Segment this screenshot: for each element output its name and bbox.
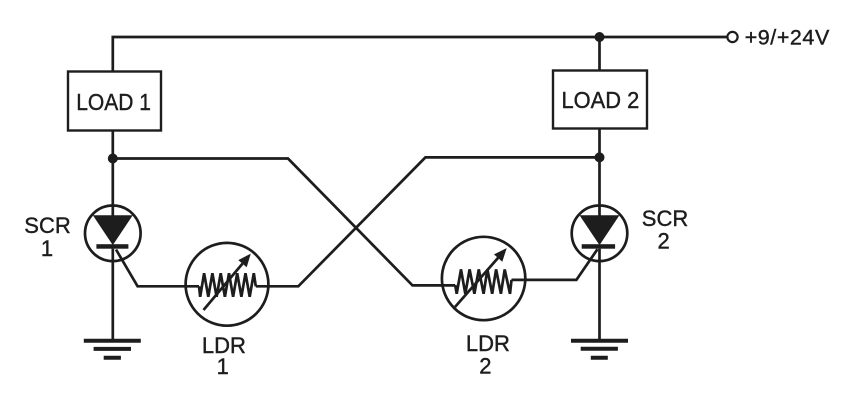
svg-text:SCR: SCR bbox=[24, 213, 70, 238]
svg-text:2: 2 bbox=[479, 353, 491, 378]
svg-text:1: 1 bbox=[217, 354, 229, 379]
svg-text:LOAD 1: LOAD 1 bbox=[76, 89, 151, 115]
svg-text:1: 1 bbox=[41, 236, 53, 261]
svg-text:+9/+24V: +9/+24V bbox=[745, 26, 830, 50]
svg-text:LOAD 2: LOAD 2 bbox=[562, 87, 640, 113]
svg-text:2: 2 bbox=[657, 228, 669, 253]
